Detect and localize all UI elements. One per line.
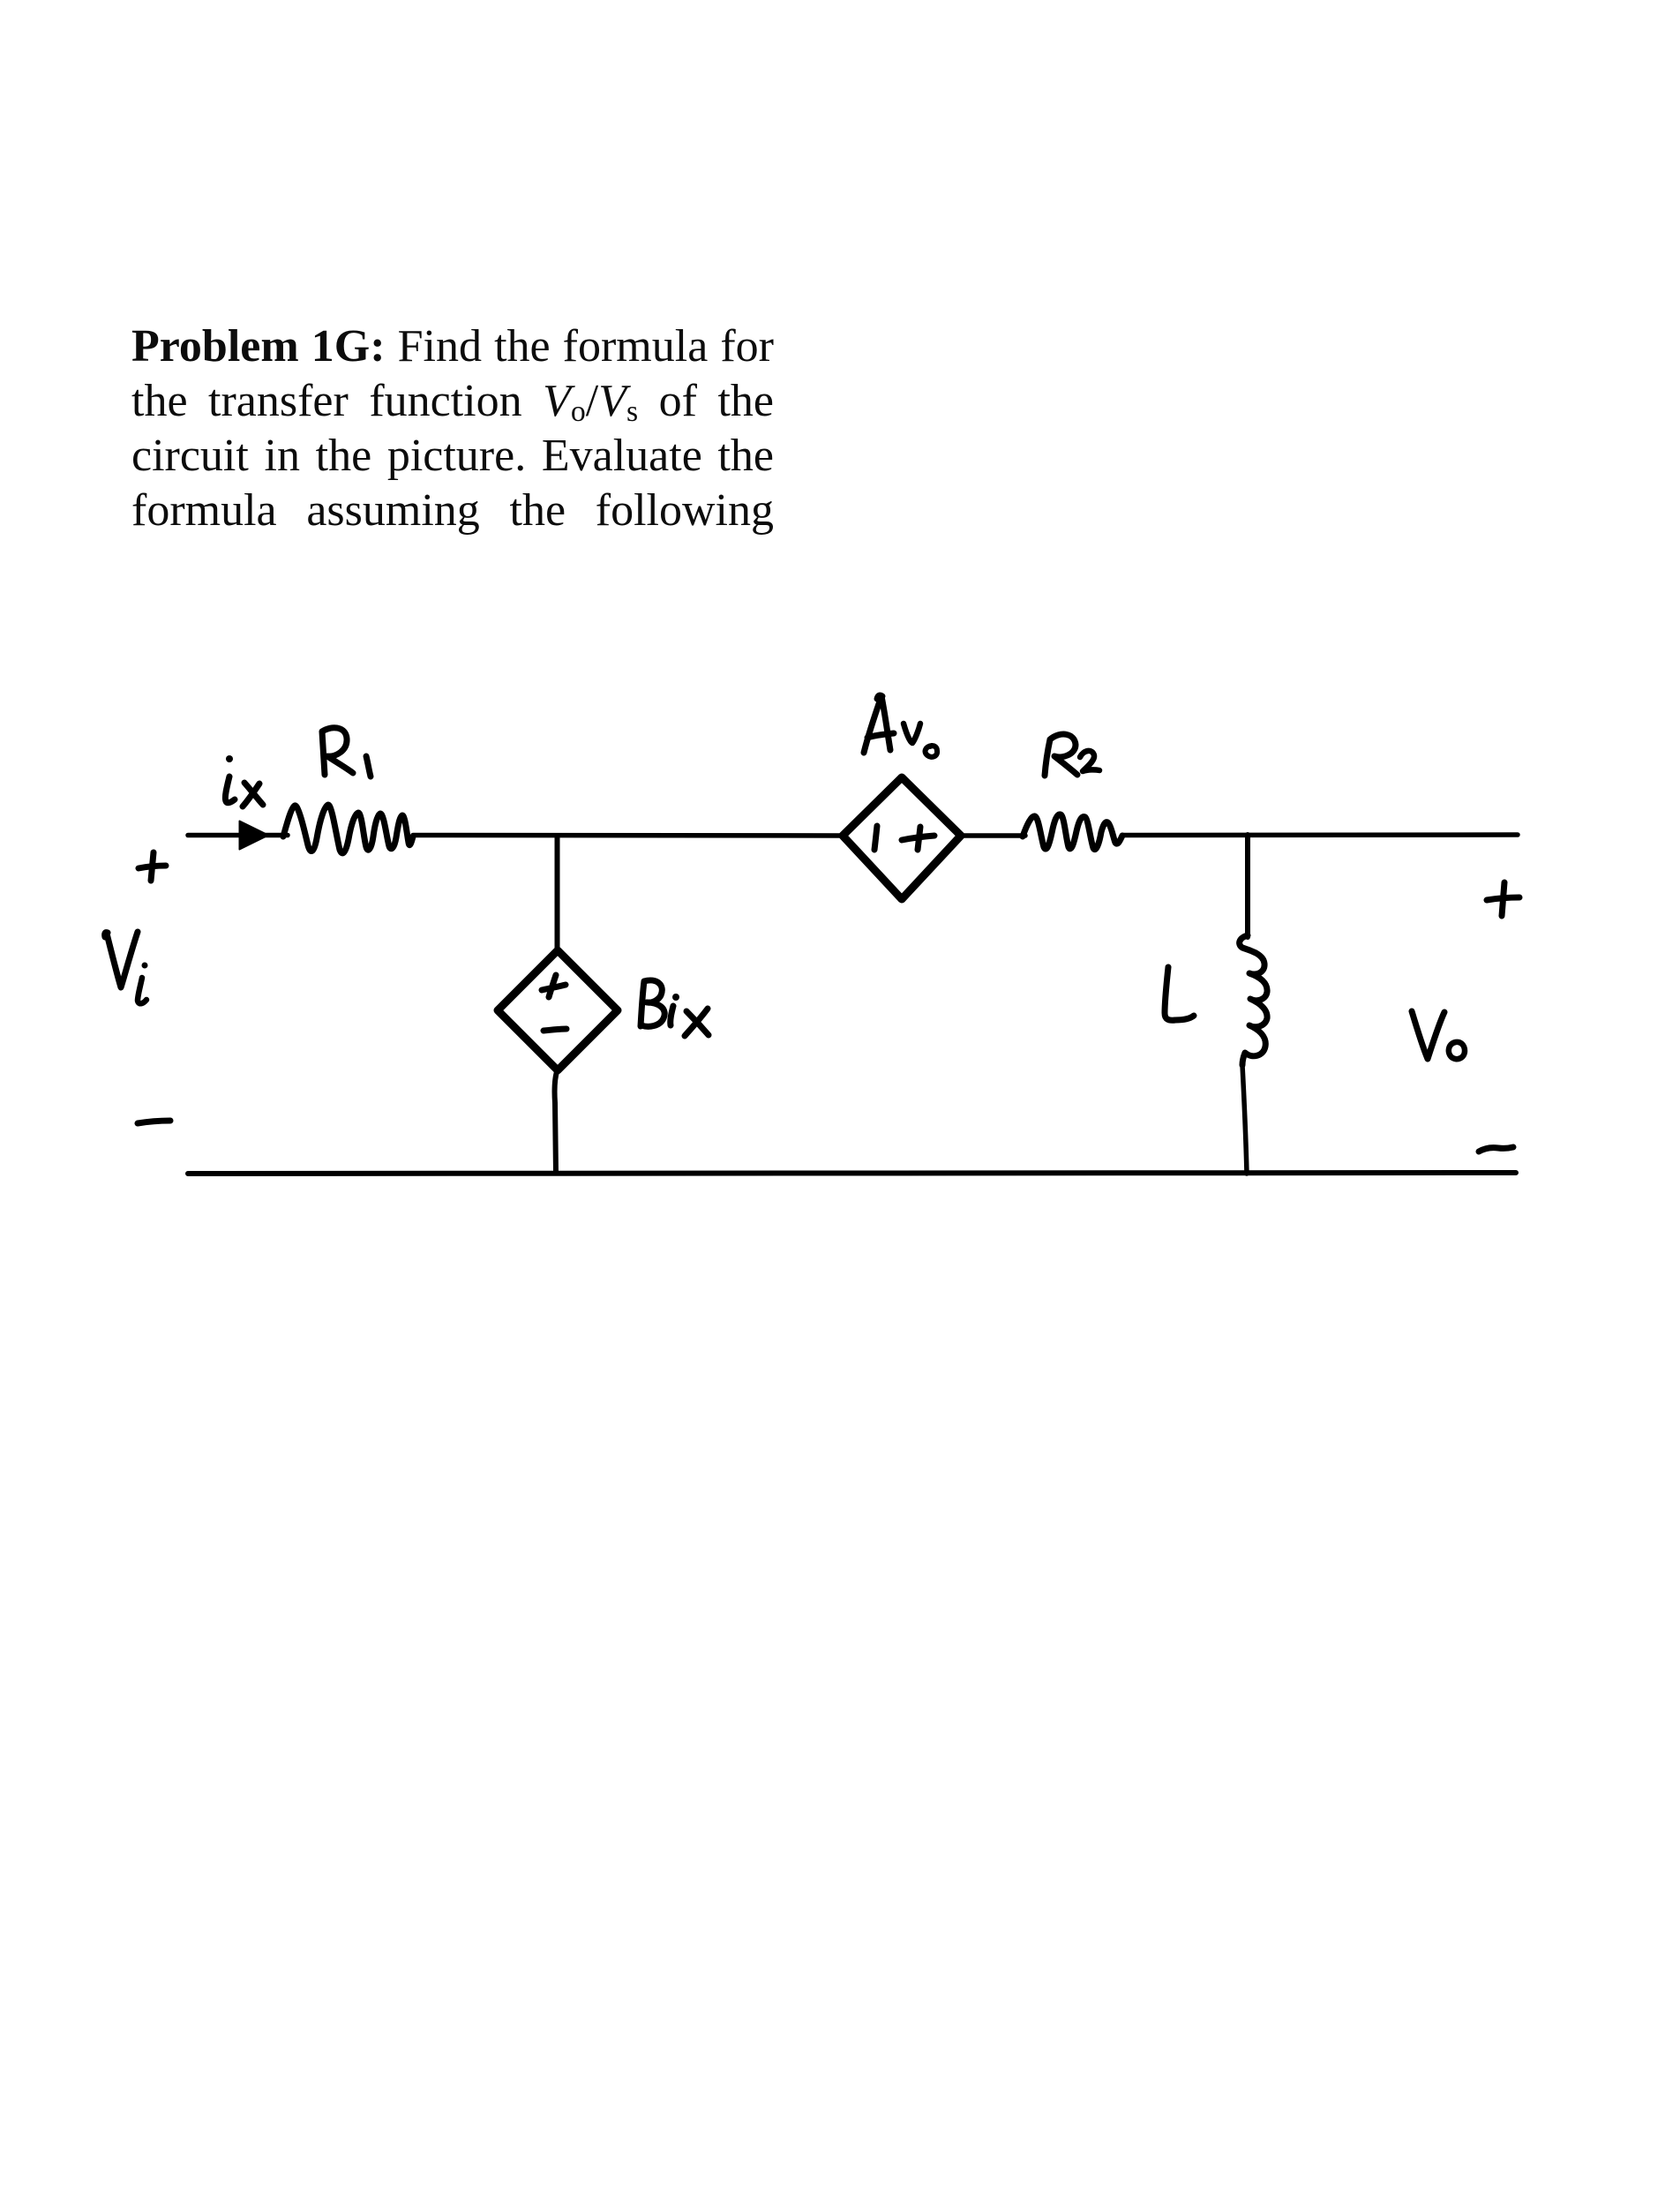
inductor L coil <box>1240 935 1267 1065</box>
label R2 <box>1045 734 1077 776</box>
dependent source Bix (diamond) <box>498 950 618 1070</box>
node A vertical wire down to Bix <box>555 836 560 951</box>
label Avo <box>864 695 894 753</box>
Avo plus sign <box>902 827 934 850</box>
Avo minus bar <box>874 826 877 850</box>
wire top-left segment <box>188 833 288 838</box>
label Vo <box>1412 1011 1444 1059</box>
minus right <box>1479 1147 1513 1152</box>
wire node A to Avo <box>843 833 845 838</box>
resistor R1 <box>283 805 413 853</box>
label Vi <box>105 932 138 987</box>
Bix plus sign <box>542 975 566 997</box>
Bix minus sign <box>544 1029 566 1031</box>
resistor R2 <box>1023 814 1122 850</box>
inductor top lead <box>1245 835 1250 937</box>
current arrow ix <box>240 822 269 850</box>
dependent source Avo (diamond) <box>843 777 961 899</box>
wire R1 to node A <box>413 833 843 838</box>
plus right <box>1487 882 1519 916</box>
label R1 <box>322 728 353 775</box>
wire Bix to bottom <box>555 1070 558 1173</box>
problem statement text <box>131 319 774 538</box>
minus left <box>138 1121 170 1123</box>
label ix <box>225 777 235 803</box>
label Bix <box>641 980 664 1026</box>
label L <box>1165 967 1194 1020</box>
wire R2 to top right corner <box>1122 832 1518 837</box>
inductor bottom lead <box>1242 1065 1247 1174</box>
bottom wire <box>188 1173 1516 1174</box>
wire Avo to R2 <box>961 833 1025 838</box>
plus left <box>139 852 166 881</box>
